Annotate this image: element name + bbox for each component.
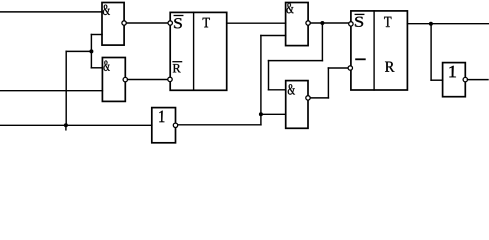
latch DD4 RS-trigger T	[351, 11, 408, 90]
wire DD3.2 output vertical up	[327, 68, 329, 98]
wire clock vertical between gate inputs	[90, 35, 92, 68]
wire clock branch horizontal	[66, 50, 91, 52]
wire DD3.1 output to latch DD4 S input	[310, 22, 348, 24]
gate DD1.1 NAND	[102, 3, 124, 46]
inverter DD6 NOT element 1	[443, 63, 466, 97]
pin DD2 R-bar input bubble	[168, 77, 172, 81]
wire clock input line C, to inverter DD5	[0, 124, 152, 126]
node clock branch junction	[89, 49, 93, 53]
wire inverted clock riser vertical	[260, 36, 262, 125]
label S of DD2	[174, 18, 181, 28]
wire input line to gate DD1.2 pin 2	[0, 90, 102, 92]
label R overbar of DD2	[173, 61, 182, 63]
pin DD1.2 inverted output bubble	[123, 77, 127, 81]
wire to latch DD4 second input	[328, 67, 348, 69]
wire branch vertical down	[321, 23, 323, 61]
node clock junction on line C	[64, 123, 68, 127]
wire latch DD4 output to right edge	[407, 23, 489, 25]
node inverted clock junction	[259, 112, 263, 116]
wire gate DD3.2 pin 2	[261, 113, 286, 115]
pin DD6 inverted output bubble	[463, 77, 467, 81]
label R of DD4	[385, 62, 394, 72]
pin DD5 inverted output bubble	[173, 123, 177, 127]
pin DD4 minus input bubble	[348, 66, 352, 70]
node DD3.1 output branch junction	[320, 21, 324, 25]
wire latch DD2 output to gate DD3.1 pin 1	[227, 22, 286, 24]
wire inverter DD6 input	[431, 79, 443, 81]
wire DD1.1 output to latch DD2 S input	[126, 22, 168, 24]
pin DD3.1 inverted output bubble	[306, 21, 310, 25]
label 1 of DD6	[449, 66, 456, 77]
wire gate DD3.1 pin 2	[261, 35, 286, 37]
label minus of DD4	[356, 58, 365, 60]
label S overbar of DD4	[355, 13, 364, 15]
wire DD3.2 output horizontal	[310, 97, 328, 99]
wire DD6 output	[468, 79, 489, 81]
pin DD4 S-bar input bubble	[349, 22, 353, 26]
label S overbar of DD2	[174, 15, 183, 17]
wire junction stub	[65, 125, 67, 130]
wire branch down to inverter DD6	[430, 24, 432, 80]
pin DD2 S-bar input bubble	[168, 21, 172, 25]
wire gate DD3.2 pin 1	[269, 89, 286, 91]
wire branch vertical to DD3.2 pin 1	[268, 61, 270, 90]
wire DD1.2 output to latch DD2 R input	[128, 79, 168, 81]
wire DD5 output horizontal	[178, 124, 261, 126]
gate DD3.2 NAND	[286, 81, 308, 129]
wire input D, to gate DD1.1 pin 1	[0, 11, 102, 13]
pin DD1.1 inverted output bubble	[122, 21, 126, 25]
label T of DD2	[203, 18, 210, 27]
node output branch junction	[429, 22, 433, 26]
inverter DD5 NOT element 1	[152, 108, 176, 143]
wire gate DD1.2 pin 1	[91, 67, 102, 69]
gate DD3.1 NAND	[286, 3, 309, 46]
label 1 of DD5	[159, 111, 164, 122]
gate DD1.2 NAND	[102, 58, 125, 102]
wire gate DD1.1 pin 2	[91, 34, 102, 36]
pin DD3.2 inverted output bubble	[306, 96, 310, 100]
wire clock riser vertical	[65, 51, 67, 125]
label T of DD4	[384, 17, 391, 27]
wire branch horizontal left	[269, 60, 323, 62]
latch DD2 RS-trigger T	[170, 12, 227, 90]
label R of DD2	[173, 64, 181, 72]
label S of DD4	[355, 17, 363, 27]
